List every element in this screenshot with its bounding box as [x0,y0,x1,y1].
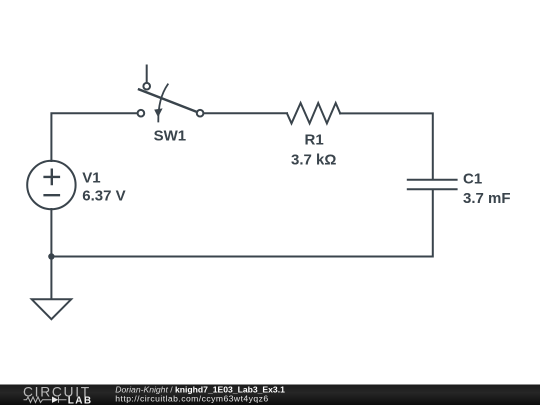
V1 plus sign [45,170,59,184]
ground symbol [32,299,71,319]
svg-text:R1: R1 [305,131,324,148]
wire: junction down to ground [50,257,52,300]
switch SW1 left terminal circle [138,110,145,117]
wire: R1 to top-right corner down to capacitor C1 top plate [340,113,433,178]
switch SW1 blade [139,89,196,111]
wire: V1 bottom to junction [50,209,52,257]
logo diode triangle [52,397,58,403]
switch SW1 actuation arrow curve [158,84,168,121]
svg-text:V1: V1 [82,169,100,186]
wire: switch right terminal to resistor R1 [204,112,287,114]
svg-text:C1: C1 [463,170,482,187]
capacitor C1 top plate [408,179,457,181]
switch SW1 top terminal stub [146,66,148,83]
switch SW1 right terminal circle [197,110,204,117]
logo resistor-diode squiggle [24,397,67,403]
svg-text:http://circuitlab.com/ccym63wt: http://circuitlab.com/ccym63wt4yqz6 [115,394,268,404]
svg-text:3.7 mF: 3.7 mF [463,190,511,207]
wire: C1 bottom plate down to bottom-right corner and along bottom to junction [51,190,432,256]
svg-text:LAB: LAB [68,396,93,405]
switch SW1 arrowhead [154,108,162,117]
switch SW1 top terminal circle [143,83,150,90]
capacitor C1 bottom plate [408,188,457,190]
svg-text:3.7 kΩ: 3.7 kΩ [291,152,336,169]
V1 minus sign [45,194,59,196]
svg-text:6.37 V: 6.37 V [82,188,125,205]
wire: V1 top to top-left corner to switch left terminal [51,113,137,161]
resistor R1 zigzag [287,103,340,123]
voltage source V1 circle [27,161,75,209]
footer bar [0,385,540,405]
junction node dot [48,253,54,259]
svg-text:SW1: SW1 [154,127,187,144]
